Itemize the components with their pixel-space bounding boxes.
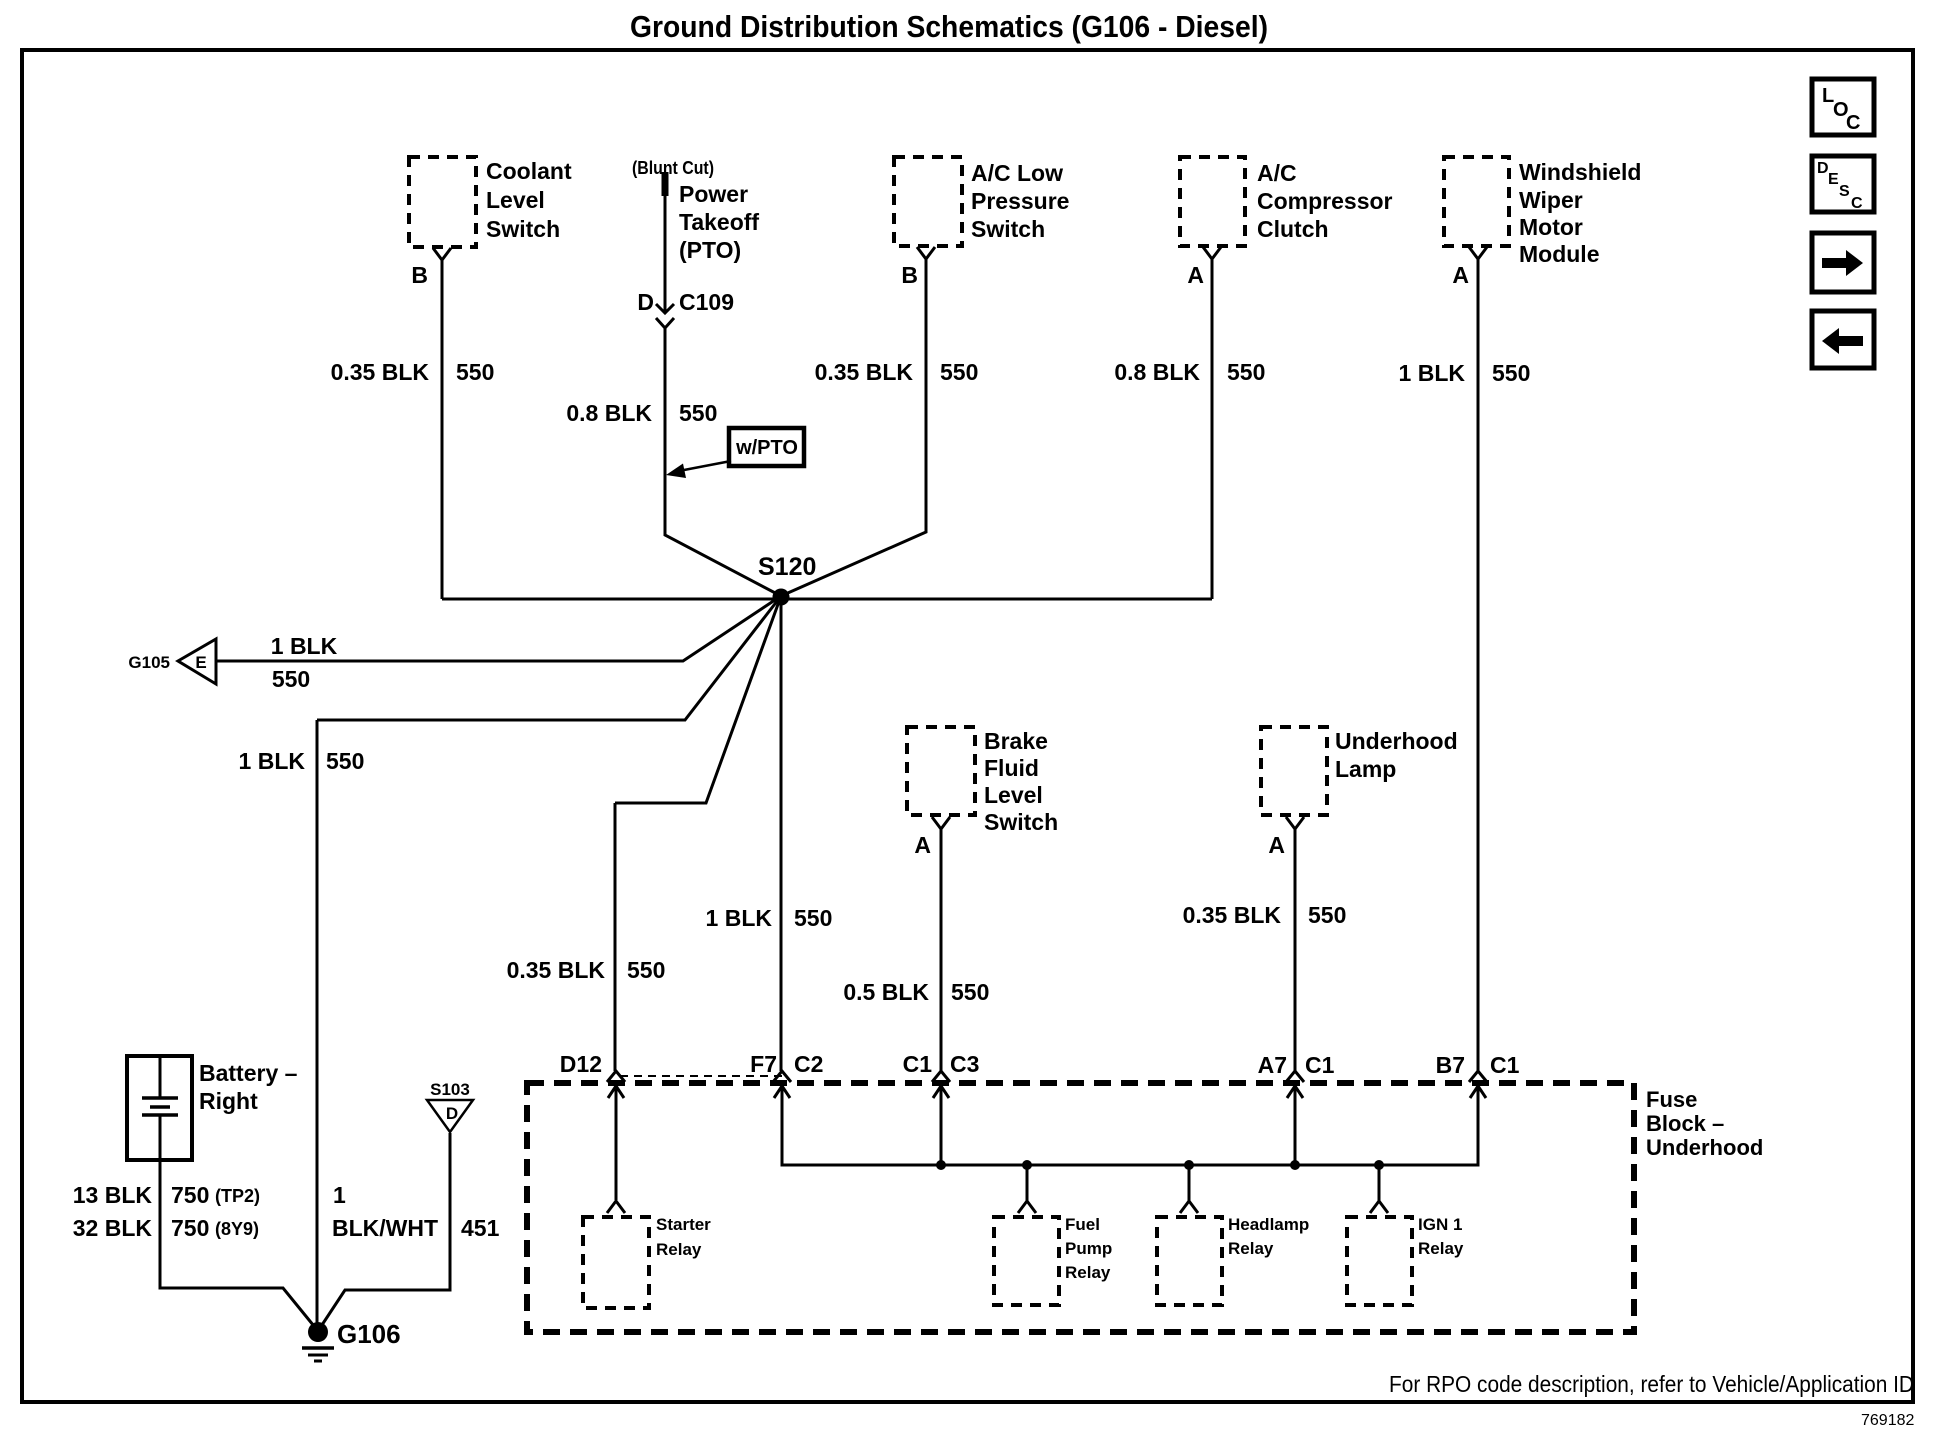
svg-text:750: 750 — [171, 1215, 209, 1241]
svg-text:E: E — [195, 653, 206, 672]
svg-text:C2: C2 — [794, 1051, 823, 1077]
svg-text:Clutch: Clutch — [1257, 216, 1329, 242]
svg-text:Switch: Switch — [984, 809, 1058, 835]
svg-text:BLK/WHT: BLK/WHT — [332, 1215, 438, 1241]
svg-text:Fuse: Fuse — [1646, 1087, 1697, 1112]
svg-text:(8Y9): (8Y9) — [215, 1219, 259, 1239]
svg-text:769182: 769182 — [1861, 1412, 1914, 1429]
svg-text:A: A — [1452, 262, 1469, 288]
svg-text:550: 550 — [1227, 359, 1265, 385]
svg-text:A/C: A/C — [1257, 160, 1297, 186]
svg-text:0.35 BLK: 0.35 BLK — [1183, 902, 1282, 928]
svg-text:C1: C1 — [1490, 1052, 1520, 1078]
svg-text:1 BLK: 1 BLK — [271, 633, 338, 659]
svg-text:D: D — [637, 289, 654, 315]
svg-text:1: 1 — [333, 1182, 346, 1208]
svg-text:Starter: Starter — [656, 1215, 711, 1234]
svg-text:0.5 BLK: 0.5 BLK — [843, 979, 929, 1005]
svg-text:Relay: Relay — [1228, 1239, 1274, 1258]
svg-text:C: C — [1851, 195, 1863, 212]
svg-text:S103: S103 — [430, 1080, 470, 1099]
svg-text:Windshield: Windshield — [1519, 159, 1641, 185]
svg-text:C109: C109 — [679, 289, 734, 315]
svg-text:A: A — [1187, 262, 1204, 288]
svg-text:D12: D12 — [560, 1051, 602, 1077]
svg-text:550: 550 — [1308, 902, 1346, 928]
svg-text:E: E — [1828, 171, 1839, 188]
svg-text:Lamp: Lamp — [1335, 756, 1396, 782]
svg-text:(TP2): (TP2) — [215, 1186, 260, 1206]
svg-text:Relay: Relay — [1418, 1239, 1464, 1258]
svg-text:Fluid: Fluid — [984, 755, 1039, 781]
svg-text:550: 550 — [794, 905, 832, 931]
svg-text:550: 550 — [272, 666, 310, 692]
svg-text:D: D — [446, 1104, 458, 1123]
svg-text:S: S — [1839, 183, 1850, 200]
svg-text:Compressor: Compressor — [1257, 188, 1393, 214]
svg-text:Wiper: Wiper — [1519, 187, 1583, 213]
svg-text:550: 550 — [679, 400, 717, 426]
svg-text:0.35 BLK: 0.35 BLK — [507, 957, 606, 983]
svg-text:(PTO): (PTO) — [679, 237, 741, 263]
svg-text:B: B — [411, 262, 428, 288]
svg-text:C1: C1 — [903, 1051, 933, 1077]
svg-text:Switch: Switch — [486, 216, 560, 242]
svg-text:0.8 BLK: 0.8 BLK — [1114, 359, 1200, 385]
svg-text:Motor: Motor — [1519, 214, 1583, 240]
svg-text:Brake: Brake — [984, 728, 1048, 754]
svg-text:550: 550 — [940, 359, 978, 385]
svg-text:Level: Level — [984, 782, 1043, 808]
svg-text:Takeoff: Takeoff — [679, 209, 759, 235]
svg-text:550: 550 — [627, 957, 665, 983]
svg-text:w/PTO: w/PTO — [735, 437, 798, 459]
svg-text:Underhood: Underhood — [1646, 1135, 1763, 1160]
svg-text:550: 550 — [1492, 360, 1530, 386]
svg-text:A/C Low: A/C Low — [971, 160, 1063, 186]
svg-text:C3: C3 — [950, 1051, 979, 1077]
svg-text:Pressure: Pressure — [971, 188, 1069, 214]
svg-text:B7: B7 — [1436, 1052, 1465, 1078]
svg-text:Battery –: Battery – — [199, 1060, 298, 1086]
svg-text:(Blunt Cut): (Blunt Cut) — [632, 158, 714, 178]
svg-text:C: C — [1846, 112, 1860, 134]
svg-text:A: A — [914, 832, 931, 858]
svg-text:Block –: Block – — [1646, 1111, 1724, 1136]
svg-text:Relay: Relay — [1065, 1263, 1111, 1282]
svg-text:13 BLK: 13 BLK — [73, 1182, 153, 1208]
svg-text:C1: C1 — [1305, 1052, 1335, 1078]
svg-text:550: 550 — [951, 979, 989, 1005]
svg-text:0.35 BLK: 0.35 BLK — [331, 359, 430, 385]
svg-text:Module: Module — [1519, 241, 1600, 267]
svg-text:IGN 1: IGN 1 — [1418, 1215, 1462, 1234]
svg-text:G105: G105 — [128, 653, 170, 672]
svg-text:F7: F7 — [750, 1051, 777, 1077]
svg-text:750: 750 — [171, 1182, 209, 1208]
svg-text:Power: Power — [679, 181, 748, 207]
svg-text:Pump: Pump — [1065, 1239, 1112, 1258]
svg-text:1 BLK: 1 BLK — [706, 905, 773, 931]
svg-text:A: A — [1268, 832, 1285, 858]
svg-text:Underhood: Underhood — [1335, 728, 1458, 754]
svg-text:1 BLK: 1 BLK — [1399, 360, 1466, 386]
svg-text:A7: A7 — [1258, 1052, 1287, 1078]
svg-text:32 BLK: 32 BLK — [73, 1215, 153, 1241]
svg-text:B: B — [901, 262, 918, 288]
svg-text:Headlamp: Headlamp — [1228, 1215, 1309, 1234]
svg-text:0.8 BLK: 0.8 BLK — [566, 400, 652, 426]
svg-text:Switch: Switch — [971, 216, 1045, 242]
svg-text:Ground Distribution Schematics: Ground Distribution Schematics (G106 - D… — [630, 9, 1268, 44]
svg-text:Right: Right — [199, 1088, 258, 1114]
svg-text:Fuel: Fuel — [1065, 1215, 1100, 1234]
svg-text:1 BLK: 1 BLK — [239, 748, 306, 774]
svg-text:0.35 BLK: 0.35 BLK — [815, 359, 914, 385]
svg-text:D: D — [1817, 160, 1829, 177]
svg-text:451: 451 — [461, 1215, 500, 1241]
svg-text:Level: Level — [486, 187, 545, 213]
svg-text:S120: S120 — [758, 553, 816, 581]
svg-text:For RPO code description, refe: For RPO code description, refer to Vehic… — [1389, 1371, 1914, 1397]
svg-text:Relay: Relay — [656, 1240, 702, 1259]
svg-text:550: 550 — [326, 748, 364, 774]
svg-text:G106: G106 — [337, 1319, 401, 1349]
svg-text:550: 550 — [456, 359, 494, 385]
svg-text:Coolant: Coolant — [486, 158, 572, 184]
